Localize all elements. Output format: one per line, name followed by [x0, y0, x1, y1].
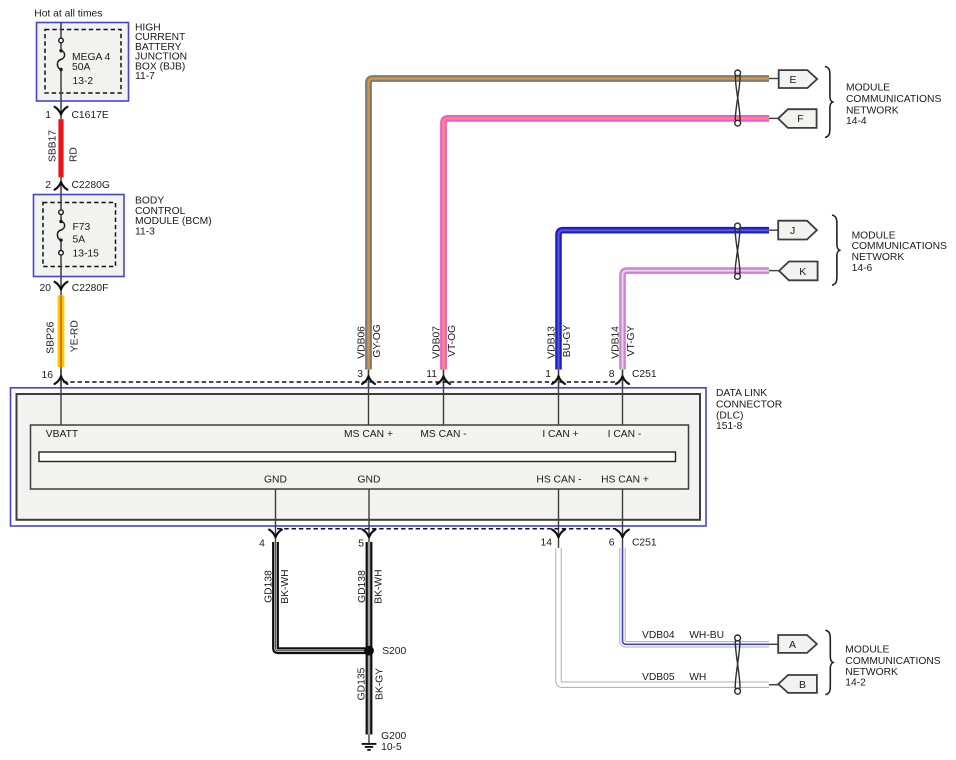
svg-text:WH-BU: WH-BU — [689, 630, 724, 641]
svg-text:VBATT: VBATT — [46, 429, 79, 440]
svg-text:C1617E: C1617E — [72, 110, 109, 121]
svg-text:VDB13: VDB13 — [546, 326, 557, 359]
svg-text:14: 14 — [541, 538, 553, 549]
svg-text:VDB14: VDB14 — [610, 326, 621, 359]
svg-text:VDB05: VDB05 — [642, 672, 675, 683]
svg-text:5A: 5A — [73, 235, 86, 246]
svg-text:YE-RD: YE-RD — [70, 320, 81, 352]
svg-text:VDB04: VDB04 — [642, 630, 675, 641]
svg-text:8: 8 — [609, 369, 615, 380]
svg-text:Hot at all times: Hot at all times — [34, 9, 102, 20]
svg-text:SBB17: SBB17 — [47, 130, 58, 162]
svg-text:C2280F: C2280F — [72, 283, 109, 294]
svg-text:C251: C251 — [632, 538, 657, 549]
svg-text:14-4: 14-4 — [846, 116, 867, 127]
svg-text:5: 5 — [358, 539, 364, 550]
svg-text:151-8: 151-8 — [716, 421, 743, 432]
svg-text:VT-OG: VT-OG — [447, 325, 458, 357]
svg-text:F73: F73 — [73, 222, 91, 233]
svg-text:BU-GY: BU-GY — [562, 324, 573, 357]
svg-text:CONNECTOR: CONNECTOR — [716, 399, 782, 410]
svg-text:GD135: GD135 — [356, 667, 367, 700]
svg-text:WH: WH — [689, 672, 706, 683]
svg-text:10-5: 10-5 — [381, 742, 402, 753]
svg-text:VT-GY: VT-GY — [626, 325, 637, 356]
svg-text:RD: RD — [69, 147, 80, 162]
svg-text:E: E — [789, 74, 796, 86]
svg-text:B: B — [799, 679, 806, 691]
svg-text:COMMUNICATIONS: COMMUNICATIONS — [845, 656, 940, 667]
svg-text:11-3: 11-3 — [135, 227, 155, 238]
svg-text:A: A — [789, 639, 796, 651]
svg-text:11: 11 — [426, 369, 437, 380]
svg-text:VDB06: VDB06 — [356, 326, 367, 359]
svg-text:MS CAN -: MS CAN - — [420, 429, 466, 440]
svg-text:C251: C251 — [632, 369, 657, 380]
svg-text:C2280G: C2280G — [72, 180, 110, 191]
svg-text:HS CAN +: HS CAN + — [601, 475, 649, 486]
svg-text:J: J — [790, 225, 795, 237]
svg-text:K: K — [799, 266, 806, 278]
svg-text:BODY: BODY — [135, 195, 164, 206]
svg-text:I CAN +: I CAN + — [542, 429, 578, 440]
svg-text:NETWORK: NETWORK — [852, 252, 905, 263]
svg-text:NETWORK: NETWORK — [846, 105, 899, 116]
svg-text:HS CAN -: HS CAN - — [536, 475, 581, 486]
svg-text:BK-WH: BK-WH — [280, 569, 291, 603]
svg-text:G200: G200 — [381, 731, 406, 742]
svg-text:50A: 50A — [72, 62, 90, 73]
svg-text:13-15: 13-15 — [73, 248, 100, 259]
svg-text:4: 4 — [259, 539, 265, 550]
svg-text:3: 3 — [357, 369, 363, 380]
svg-text:MS CAN +: MS CAN + — [344, 429, 393, 440]
svg-text:1: 1 — [45, 110, 51, 121]
svg-text:COMMUNICATIONS: COMMUNICATIONS — [852, 241, 947, 252]
svg-text:14-6: 14-6 — [852, 263, 873, 274]
svg-text:F: F — [797, 113, 803, 125]
svg-text:GND: GND — [358, 475, 381, 486]
svg-text:20: 20 — [40, 283, 52, 294]
svg-text:S200: S200 — [382, 646, 406, 657]
svg-text:NETWORK: NETWORK — [845, 667, 898, 678]
svg-text:13-2: 13-2 — [73, 76, 94, 87]
svg-text:MEGA 4: MEGA 4 — [72, 52, 111, 63]
svg-text:MODULE: MODULE — [846, 83, 890, 94]
svg-text:GD138: GD138 — [357, 570, 368, 603]
svg-text:GND: GND — [264, 475, 287, 486]
svg-text:SBP26: SBP26 — [45, 321, 56, 353]
svg-text:DATA LINK: DATA LINK — [716, 388, 767, 399]
svg-text:1: 1 — [545, 369, 551, 380]
svg-text:MODULE (BCM): MODULE (BCM) — [135, 216, 212, 227]
svg-text:MODULE: MODULE — [845, 645, 889, 656]
svg-text:MODULE: MODULE — [852, 230, 896, 241]
svg-text:GD138: GD138 — [263, 570, 274, 603]
svg-text:VDB07: VDB07 — [431, 326, 442, 359]
svg-text:6: 6 — [609, 538, 615, 549]
svg-text:2: 2 — [45, 180, 51, 191]
svg-text:16: 16 — [42, 370, 54, 381]
svg-text:I CAN -: I CAN - — [608, 429, 642, 440]
svg-text:BK-GY: BK-GY — [374, 668, 385, 700]
svg-text:GY-OG: GY-OG — [372, 324, 383, 357]
svg-text:BK-WH: BK-WH — [374, 569, 385, 603]
svg-text:COMMUNICATIONS: COMMUNICATIONS — [846, 94, 941, 105]
svg-text:14-2: 14-2 — [845, 678, 866, 689]
svg-text:11-7: 11-7 — [135, 71, 155, 82]
